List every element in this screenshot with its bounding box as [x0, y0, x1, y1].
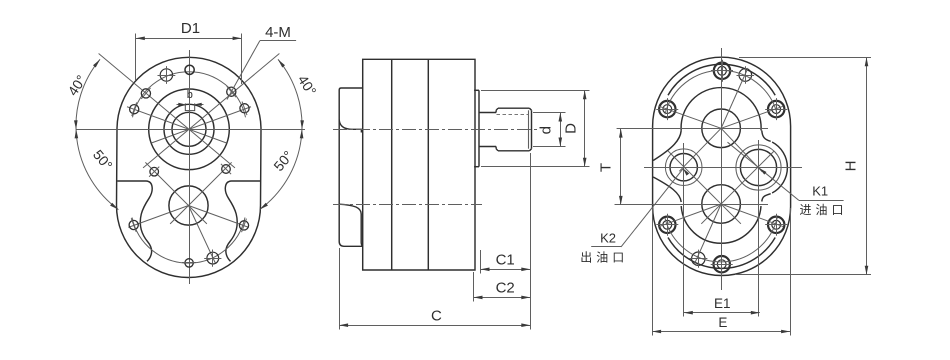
side view body section line 1 [391, 59, 393, 270]
front view lower-right 20deg spoke [189, 206, 249, 228]
side view upper centerline [333, 129, 537, 131]
40/50 arc arrows right [260, 59, 304, 209]
front view 40deg left spoke / extension line [99, 53, 235, 167]
front view upper bolt circle arc [133, 72, 246, 118]
svg-text:E: E [718, 315, 727, 330]
rear view upper gear circle [702, 109, 741, 148]
bolt hole bottom center [185, 259, 193, 267]
svg-text:出油口: 出油口 [580, 251, 628, 265]
bolt hole mid left [150, 167, 159, 176]
rear spoke to top dowel [721, 68, 748, 128]
rear spoke to top-left screw [659, 106, 721, 128]
rear view upper bolt circle arc [665, 70, 777, 114]
svg-text:E1: E1 [714, 296, 731, 311]
side view upper waist fillet [339, 120, 361, 133]
dimension H [735, 57, 871, 275]
bolt hole 40deg left [141, 89, 150, 98]
svg-text:b: b [187, 89, 193, 101]
rear dowel hole bottom-left [689, 250, 707, 268]
rear spoke to bottom-left screw [659, 204, 721, 227]
label inlet port chinese [799, 203, 847, 217]
bolt hole cross ticks [131, 86, 247, 262]
rear spoke to top-right screw [721, 106, 783, 128]
rear dowel hole top-right [737, 66, 755, 84]
dowel hole top left [158, 66, 176, 84]
bolt hole 20deg left [130, 105, 139, 114]
front view keyway [185, 103, 194, 110]
socket screw top-right [765, 98, 787, 120]
rear 45deg spoke through inlet port [701, 151, 774, 224]
side view main body rectangle [363, 59, 475, 270]
rear view port horizontal centerline [644, 167, 802, 169]
40/50 arc arrows left [74, 59, 118, 209]
rear view left port vertical centerline [683, 143, 685, 317]
bolt hole 40deg right (4-M) [227, 87, 236, 96]
outlet port K2 circle [670, 154, 697, 181]
rear view cover waist upper-right S-curve [762, 131, 771, 142]
svg-text:4-M: 4-M [265, 24, 291, 41]
svg-text:d: d [538, 126, 555, 134]
rear view lower gear centerline [615, 204, 768, 206]
svg-text:C: C [431, 308, 442, 325]
bolt hole 20deg right [240, 104, 249, 113]
front view bearing circle [164, 104, 214, 154]
bolt hole mid right [222, 165, 231, 174]
svg-text:T: T [598, 163, 615, 172]
front view lower-left 20deg spoke [128, 206, 188, 228]
bolt hole lower right [239, 221, 248, 230]
socket screw bottom-left [656, 214, 678, 236]
gear pump front view body outline [117, 57, 262, 277]
dimension d [533, 113, 566, 147]
rear view lower bore arc [681, 206, 761, 243]
label 40deg right [295, 72, 320, 98]
inlet port K1 outer boss arc [772, 142, 787, 193]
svg-text:C1: C1 [496, 252, 515, 269]
front view shaft bore circle [172, 112, 206, 146]
rear 45deg spoke through outlet port [668, 151, 741, 224]
dimension C2 [474, 272, 531, 302]
front view vertical centerline [189, 50, 191, 284]
front view horizontal centerline [76, 129, 305, 131]
label outlet port chinese [580, 251, 628, 265]
dimension b at keyway [177, 89, 204, 106]
shaft seal section [479, 110, 496, 148]
label 50deg left [90, 147, 116, 174]
front view lower bolt circle arc [132, 218, 245, 264]
front view 20deg left spoke [127, 107, 227, 143]
rear view cover waist upper-left S-curve [653, 131, 681, 161]
dimension E1 [684, 296, 760, 315]
rear view cover bottom cap arc [668, 238, 775, 269]
socket screw bottom-right [765, 214, 787, 236]
rear view upper gear centerline [617, 128, 768, 130]
inlet port K1 boss circle [736, 145, 781, 190]
rear spoke to bottom dowel [694, 204, 721, 264]
rear spoke upper gear to outlet port [679, 128, 721, 171]
rear view right port vertical centerline [758, 140, 760, 317]
front view 40deg right spoke / extension line [143, 53, 279, 167]
front view left side cutout contour [117, 181, 152, 261]
label 4-M with leader [227, 24, 296, 100]
front view lower 65deg spoke [189, 206, 216, 264]
outlet port K2 boss circle [665, 149, 702, 186]
rear view vertical centerline [721, 48, 723, 290]
side view lower centerline [333, 204, 482, 206]
rear spoke upper gear to inlet port [721, 128, 762, 172]
front view right side cutout contour [225, 181, 260, 261]
svg-text:H: H [843, 161, 860, 172]
front view lower-right 45deg spoke [170, 162, 232, 224]
rear view outer oval outline [653, 57, 791, 275]
shaft keyed section [496, 108, 531, 151]
rear view lower gear circle [702, 185, 741, 224]
front view lower gear bore circle [169, 186, 208, 225]
front view lower-left 45deg spoke [145, 162, 207, 224]
rear spoke to bottom-right screw [721, 204, 783, 227]
rear view lower bolt circle arc [665, 218, 777, 262]
40/50 degree dimension arc left [76, 59, 118, 209]
svg-text:K1: K1 [812, 184, 828, 199]
socket screw bottom-center [711, 253, 733, 275]
side view rear cover plate outline [339, 88, 363, 246]
side view lower waist fillet [339, 204, 363, 246]
rear view cover top cap arc [668, 64, 775, 95]
side view mounting plate face [474, 90, 479, 166]
dimension D [481, 90, 590, 166]
bolt hole lower left [129, 220, 138, 229]
label K1 with leader [728, 142, 844, 200]
rear view upper bore arc [681, 88, 761, 131]
svg-text:D: D [563, 123, 580, 134]
svg-text:进油口: 进油口 [799, 203, 847, 217]
svg-text:C2: C2 [496, 280, 515, 297]
shaft keyway hidden line [497, 114, 529, 116]
dimension D1 [136, 20, 242, 84]
label 50deg right [270, 148, 296, 175]
label K2 with leader [591, 168, 689, 247]
svg-text:D1: D1 [181, 20, 200, 37]
front view flange pilot circle [149, 89, 230, 170]
inlet port K1 circle [740, 149, 776, 185]
rear view cover waist lower-left S-curve [653, 177, 681, 202]
socket screw top-left [656, 98, 678, 120]
rear view cover waist lower-right S-curve [762, 194, 771, 202]
front view 20deg right spoke [151, 107, 251, 143]
dimension E [652, 208, 790, 336]
socket screw top-center [711, 60, 733, 82]
side view body section line 2 [427, 59, 429, 270]
label 40deg left [64, 72, 89, 98]
40/50 degree dimension arc right [260, 59, 302, 209]
dimension C [339, 153, 530, 330]
svg-text:K2: K2 [600, 231, 616, 246]
dimension C1 [481, 250, 531, 274]
top center pin hole [185, 65, 194, 74]
dimension T [598, 129, 658, 205]
dowel hole bottom right [204, 250, 221, 267]
